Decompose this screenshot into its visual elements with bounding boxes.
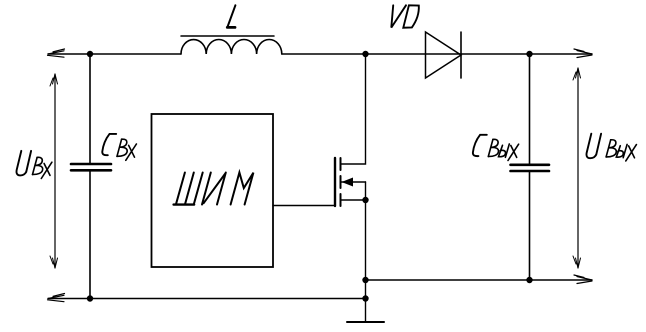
wire gate from PWM block	[273, 205, 334, 207]
dimension line U_out	[577, 68, 579, 268]
dimension arrow U_out up	[573, 68, 581, 80]
transistor channel segment source	[340, 194, 342, 206]
node junction output bottom	[526, 277, 532, 283]
inductor L	[181, 39, 282, 54]
label L	[227, 5, 235, 27]
diode VD	[426, 32, 462, 78]
inductor core bar	[181, 35, 274, 37]
wire arrow left end of top rail	[48, 49, 65, 57]
label U_in	[16, 151, 31, 176]
dimension line U_in	[54, 74, 56, 268]
label VD	[391, 5, 419, 27]
wire arrow right end of top rail	[574, 49, 592, 58]
label C_out	[473, 135, 487, 156]
transistor channel segment drain	[340, 158, 342, 170]
wire top rail left segment	[48, 53, 181, 55]
wire bottom rail right segment	[366, 279, 593, 281]
capacitor C_out wire upper	[529, 54, 531, 164]
node junction input top	[87, 51, 93, 57]
wire arrow left end of bottom rail	[48, 294, 65, 302]
wire source down to ground	[365, 182, 367, 322]
capacitor C_out plates	[511, 164, 550, 167]
transistor drain stub	[342, 54, 366, 164]
transistor source stub	[342, 199, 366, 201]
capacitor C_in wire upper	[89, 54, 91, 164]
node junction source-body	[362, 197, 368, 203]
node junction drain top	[362, 51, 368, 57]
label U_out	[586, 134, 601, 159]
capacitor C_in plates	[71, 163, 111, 166]
label ШИМ	[174, 173, 254, 205]
ground chassis bar	[347, 321, 384, 323]
transistor body arrow	[342, 181, 366, 183]
dimension arrow U_in down	[50, 256, 58, 268]
node junction input bottom	[87, 295, 93, 301]
wire top rail right segment	[461, 53, 592, 55]
capacitor C_in wire lower	[89, 171, 91, 299]
dimension arrow U_out down	[573, 256, 581, 268]
wire bottom rail left segment	[48, 298, 366, 300]
node junction source to bottom-left rail	[362, 295, 368, 301]
label C_in	[102, 134, 116, 155]
block PWM (ШИМ)	[152, 114, 274, 267]
dimension arrow U_in up	[50, 74, 58, 86]
capacitor C_out wire lower	[529, 172, 531, 280]
wire top rail middle segment	[282, 53, 461, 55]
transistor VT1 gate bar	[334, 158, 336, 206]
diode cathode bar	[460, 32, 462, 78]
node junction source to bottom-right rail	[362, 277, 368, 283]
transistor channel segment body	[340, 176, 342, 188]
wire arrow right end of bottom rail	[574, 275, 592, 284]
node junction output top	[526, 51, 532, 57]
